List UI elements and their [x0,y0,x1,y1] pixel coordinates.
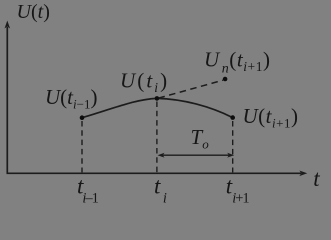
arrowhead U axis [5,21,11,29]
svg-text:t: t [313,166,320,191]
To measuring arrow [158,153,235,158]
vertical axis U [6,27,8,173]
node U(t_i) [155,96,160,101]
svg-text:U(ti+1): U(ti+1) [243,104,299,131]
svg-text:U(ti−1): U(ti−1) [45,85,97,112]
dashed drop line t_i+1 [232,121,234,172]
svg-text:U(t): U(t) [17,1,50,23]
node Un(t_i+1) predicted [223,77,228,82]
dashed drop line t_i [156,102,158,173]
arrowhead t axis [299,171,307,177]
node U(t_i-1) [80,115,85,120]
horizontal axis t [7,172,302,174]
svg-text:U(ti): U(ti) [120,68,169,95]
dashed drop line t_i-1 [81,121,83,172]
node U(t_i+1) [230,115,235,120]
dashed extrapolation line [159,80,224,98]
curve through sample points [82,98,233,117]
